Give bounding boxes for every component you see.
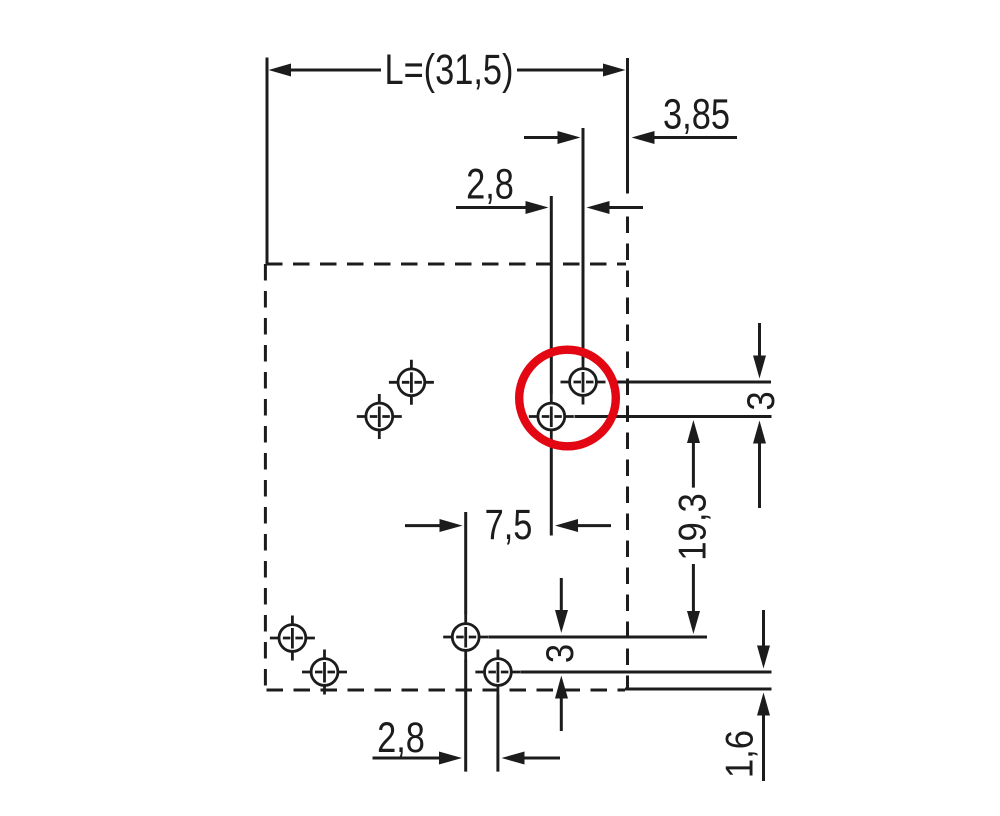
arrow 2,8 top left-pointing: [587, 201, 610, 214]
wire hole extension x=497.9: [496, 695, 499, 772]
wire right extension line top: [626, 58, 629, 194]
hole bottom-mid pair upper: [443, 615, 488, 660]
wire 3 top-right dimension arrow lines: [758, 323, 761, 508]
arrow 2,8 bottom left-pointing: [502, 752, 525, 765]
wire dashed top edge: [266, 263, 626, 266]
red highlight circle: [519, 350, 616, 447]
wire hole extension x=465.7: [464, 512, 467, 772]
wire 7,5 arrow lines: [405, 524, 611, 527]
wire H8 right extension: [521, 671, 772, 674]
hole bottom-mid pair lower: [475, 650, 520, 695]
hole bottom-left pair lower: [302, 650, 347, 695]
arrowheads: [269, 64, 771, 765]
svg-text:2,8: 2,8: [377, 714, 425, 761]
svg-text:3,85: 3,85: [663, 91, 730, 138]
arrow 7,5 left-pointing: [555, 519, 578, 532]
hole circled pair lower: [529, 394, 574, 439]
svg-text:1,6: 1,6: [718, 730, 761, 778]
wire 19,3 dimension arrow lines: [692, 441, 695, 613]
svg-text:7,5: 7,5: [485, 501, 533, 548]
arrow 3 top-right down: [753, 356, 766, 379]
arrow 3,85 toward line B: [558, 131, 581, 144]
arrow 2,8 bottom right-pointing: [439, 752, 462, 765]
svg-text:19,3: 19,3: [671, 493, 714, 560]
wire 2,8 top arrow lines: [456, 206, 643, 209]
arrow 19,3 down: [687, 611, 700, 634]
hole circled pair upper: [561, 360, 606, 405]
arrow 2,8 top right-pointing: [526, 201, 549, 214]
hole top-left pair lower: [357, 394, 402, 439]
arrow 3 bottom down: [555, 610, 568, 633]
arrow L right: [603, 64, 626, 77]
wire bottom right solid extension: [625, 688, 772, 691]
wire L dimension line: [288, 69, 606, 72]
hole bottom-left pair upper: [270, 616, 315, 661]
arrow 3 top-right up: [753, 421, 766, 444]
wire H7 right extension: [488, 636, 707, 639]
wire dashed left edge: [264, 264, 267, 690]
hole top-left pair upper: [389, 360, 434, 405]
wire dashed right edge: [626, 206, 629, 690]
arrow 1,6 down: [757, 646, 770, 669]
arrow 3 bottom up: [555, 676, 568, 699]
wire upper hole right extension: [610, 381, 771, 384]
arrow 3,85 toward right edge: [632, 131, 655, 144]
wire 3 bottom dimension arrow lines: [560, 578, 563, 731]
arrow L left: [269, 64, 292, 77]
wire dashed bottom edge: [267, 689, 626, 692]
wire 3,85 arrow lines: [524, 136, 737, 139]
wire lower hole right extension: [575, 415, 772, 418]
wire hole extension line A: [550, 196, 553, 536]
wire hole extension line B: [582, 128, 585, 360]
svg-text:2,8: 2,8: [466, 161, 514, 208]
wire left extension line: [266, 58, 269, 265]
svg-text:L=(31,5): L=(31,5): [384, 46, 513, 93]
dashed outline rectangle: [265, 206, 627, 690]
wire 2,8 bottom arrow lines: [373, 757, 561, 760]
arrow 19,3 up: [687, 420, 700, 443]
svg-text:3: 3: [538, 644, 581, 663]
wire 1,6 dimension arrow lines: [762, 610, 765, 781]
svg-text:3: 3: [739, 391, 782, 410]
arrow 7,5 right-pointing: [440, 519, 463, 532]
arrow 1,6 up: [757, 693, 770, 716]
